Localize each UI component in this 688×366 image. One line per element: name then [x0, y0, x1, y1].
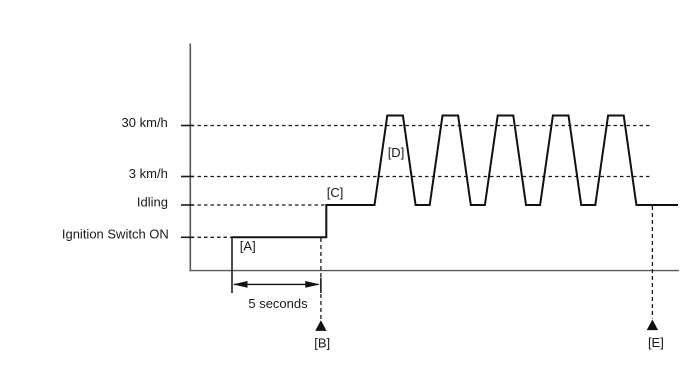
svg-text:Idling: Idling	[137, 194, 168, 209]
dashed drop line E	[651, 206, 653, 319]
dimension arrow 5 seconds	[234, 283, 319, 285]
svg-text:Ignition Switch ON: Ignition Switch ON	[62, 227, 169, 242]
y-axis	[189, 44, 191, 272]
tick Ignition Switch ON	[181, 236, 194, 238]
svg-text:3 km/h: 3 km/h	[129, 166, 168, 181]
tick 30 km/h	[181, 125, 194, 127]
tick 3 km/h	[181, 176, 194, 178]
tick Idling	[181, 204, 194, 206]
svg-text:5 seconds: 5 seconds	[248, 296, 308, 311]
svg-text:[B]: [B]	[314, 336, 330, 351]
dashed level line 30 km/h	[198, 125, 653, 127]
svg-text:[A]: [A]	[240, 238, 256, 253]
svg-text:30 km/h: 30 km/h	[122, 115, 168, 130]
x-axis	[190, 270, 680, 272]
svg-text:[D]: [D]	[388, 145, 405, 160]
dashed level line Ignition Switch ON	[198, 236, 232, 238]
extension line right of 5 seconds span	[320, 278, 322, 294]
waveform trace	[232, 116, 679, 238]
marker triangle B	[315, 320, 326, 331]
dashed drop line B	[320, 238, 322, 320]
marker triangle E	[647, 320, 658, 331]
dashed level line Idling	[198, 204, 327, 206]
svg-text:[C]: [C]	[327, 185, 344, 200]
svg-text:[E]: [E]	[648, 335, 664, 350]
extension line left of 5 seconds span	[231, 237, 233, 293]
dashed level line 3 km/h	[198, 176, 652, 178]
